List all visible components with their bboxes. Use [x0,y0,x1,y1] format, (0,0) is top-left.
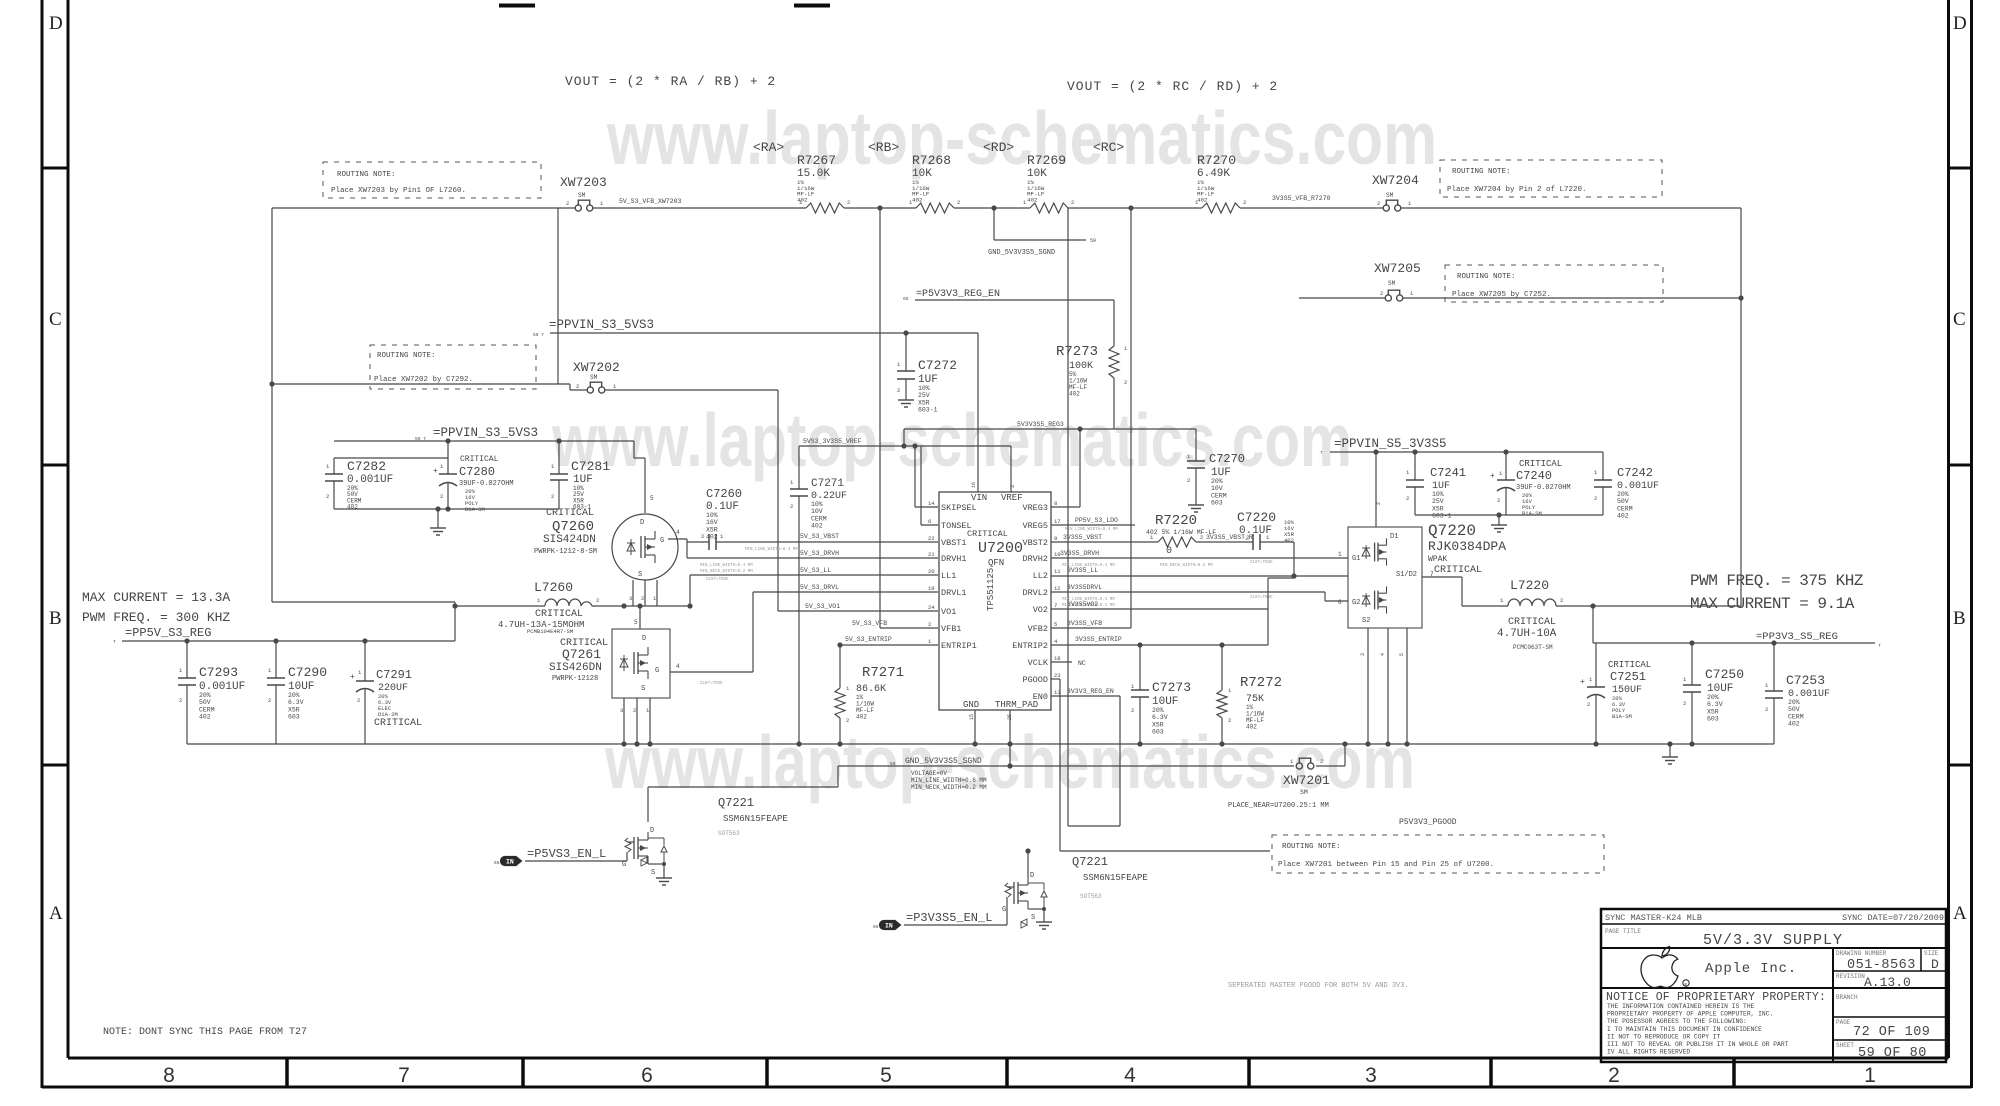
svg-text:C7250: C7250 [1705,667,1744,682]
junction switch at Q7261 drain [637,603,642,608]
junction gnd rail C7251 [1593,741,1598,746]
svg-text:GND_5V3V3S5_SGND: GND_5V3V3S5_SGND [988,249,1055,257]
svg-text:C7282: C7282 [347,459,386,474]
svg-text:20%: 20% [1152,707,1164,714]
wire SGND line [838,744,1345,766]
svg-text:2: 2 [1131,707,1134,714]
svg-text:G: G [660,537,664,545]
svg-text:PWRPK-12128: PWRPK-12128 [552,675,598,683]
wire VIN drop [977,333,979,492]
svg-text:C7290: C7290 [288,665,327,680]
wire Q7220 S1D2 to L7220 [1422,577,1462,606]
svg-text:D: D [650,827,654,835]
junction gnd rail C7271 [796,741,801,746]
svg-text:2: 2 [551,493,554,500]
svg-text:MIN_NECK_WIDTH=0.2 MM: MIN_NECK_WIDTH=0.2 MM [1160,564,1213,568]
svg-text:2: 2 [596,597,599,604]
svg-text:10%: 10% [918,385,930,392]
junction PPVIN at C7272 [903,330,908,335]
capacitor C7293 [178,641,245,744]
svg-text:II NOT TO REPRODUCE OR COPY IT: II NOT TO REPRODUCE OR COPY IT [1607,1033,1721,1040]
svg-text:CRITICAL: CRITICAL [1608,660,1651,670]
svg-text:4: 4 [1124,1064,1136,1087]
svg-text:S: S [651,869,655,877]
svg-text:<RC>: <RC> [1093,140,1124,155]
svg-text:2: 2 [440,493,443,500]
svg-text:4: 4 [676,663,680,670]
svg-text:CRITICAL: CRITICAL [1508,617,1556,628]
svg-text:2107=TRUE: 2107=TRUE [700,682,723,686]
junction PP5V at C7290 [273,638,278,643]
title block revision [1836,973,1911,990]
svg-text:603-1: 603-1 [918,407,938,414]
svg-text:XW7202: XW7202 [573,360,620,375]
svg-text:6.3V: 6.3V [288,699,304,706]
wire Q7221a source gnd [648,864,672,885]
svg-text:S1/D2: S1/D2 [1396,571,1417,579]
svg-text:22: 22 [928,535,935,542]
wire 3V3 output drop [1592,606,1594,643]
inductor L7220 [1497,578,1563,651]
routing note box XW7203 [323,162,541,198]
junction PPVIN S5 C7241 [1412,449,1417,454]
svg-text:B: B [49,608,62,629]
ground S5 cap bank [1491,515,1507,532]
capacitor C7253 [1765,643,1830,744]
svg-text:402: 402 [912,196,923,203]
wire ENTRIP2 [1051,644,1268,646]
svg-text:C7293: C7293 [199,665,238,680]
svg-text:65: 65 [494,860,500,866]
capacitor C7282 [325,459,393,511]
svg-text:402: 402 [1069,391,1080,398]
junction Q7221b source [1042,907,1046,911]
routing note box XW7205 [1445,265,1663,302]
svg-text:PLACE_NEAR=U7200.25:1 MM: PLACE_NEAR=U7200.25:1 MM [1228,802,1329,810]
svg-text:=PPVIN_S3_5VS3: =PPVIN_S3_5VS3 [433,426,538,440]
svg-text:XW7205: XW7205 [1374,261,1421,276]
svg-text:2: 2 [1243,199,1246,206]
svg-text:L7220: L7220 [1510,578,1549,593]
svg-text:2: 2 [847,199,850,206]
svg-text:CERM: CERM [1211,492,1227,499]
capacitor C7291 [350,641,422,744]
svg-text:REVISION: REVISION [1836,973,1865,980]
transistor Q7220 [1338,502,1506,656]
svg-text:QFN: QFN [988,558,1004,568]
svg-text:402: 402 [1027,196,1038,203]
routing note box XW7204 [1440,160,1662,197]
apple logo [1641,947,1689,988]
net label =PP3V3_S5_REG [1756,631,1881,649]
wire DRVH2 to Q7220 G1 [1051,557,1348,559]
svg-text:59: 59 [890,761,896,767]
wire switch node 3V3 [1462,605,1508,607]
routing note box XW7202 [370,345,536,389]
svg-text:<RB>: <RB> [868,140,899,155]
wire XW7202 right [605,390,778,611]
svg-text:PAGE: PAGE [1836,1019,1851,1026]
ground 3V3 output [1662,744,1678,764]
svg-text:R7270: R7270 [1197,153,1236,168]
wire Q7261 gate to DRVL1 [670,592,753,686]
svg-text:SEPERATED MASTER PGOOD FOR BOT: SEPERATED MASTER PGOOD FOR BOTH 5V AND 3… [1228,982,1409,990]
junction switch node L7260 left [452,603,457,608]
svg-text:=PPVIN_S3_5VS3: =PPVIN_S3_5VS3 [549,318,654,332]
svg-text:2: 2 [1587,701,1590,708]
svg-text:MIN_LINE_WIDTH=0.4 MM: MIN_LINE_WIDTH=0.4 MM [700,564,753,568]
wire VREG3 stub [1051,429,1080,507]
svg-text:5V_S3_VO1: 5V_S3_VO1 [805,603,840,610]
wire PPVIN to Q7260 drain [634,441,645,513]
wire EN0 [1051,696,1120,826]
wire Q7221b source gnd [1028,909,1052,929]
svg-text:CERM: CERM [1617,505,1633,512]
svg-text:39UF-0.027OHM: 39UF-0.027OHM [459,480,514,488]
svg-text:2: 2 [641,595,644,602]
wire main ground rail [187,743,1774,745]
junction gnd rail Q7261 c [647,741,652,746]
svg-text:D: D [640,519,644,527]
svg-text:39UF-0.0270HM: 39UF-0.0270HM [1516,484,1571,492]
junction ENTRIP2 C7273 [1137,642,1142,647]
svg-text:IV ALL RIGHTS RESERVED: IV ALL RIGHTS RESERVED [1607,1049,1690,1056]
title block [1601,909,1946,1062]
svg-text:VBST1: VBST1 [941,538,967,548]
svg-text:25V: 25V [918,392,930,399]
svg-text:7: 7 [398,1064,410,1087]
svg-text:2: 2 [957,199,960,206]
junction PPVIN S5 C7240 [1503,449,1508,454]
junction PP5V at C7293 [184,638,189,643]
svg-text:2: 2 [566,200,569,207]
svg-text:402: 402 [199,714,211,721]
svg-text:VBST2: VBST2 [1022,538,1048,548]
svg-text:20%: 20% [1788,699,1800,706]
IC U7200 TPS51125 [928,482,1061,720]
wire S5 cap bank bottom [1415,514,1603,516]
svg-text:5: 5 [634,619,638,626]
svg-text:VO2: VO2 [1033,605,1048,615]
capacitor C7250 [1683,643,1744,744]
net label =PPVIN_S3_5VS3 lower [415,426,538,442]
input flag =P3V3S5_EN_L [873,911,992,930]
svg-text:402: 402 [706,534,718,541]
svg-text:MIN_LINE_WIDTH=0.4 MM: MIN_LINE_WIDTH=0.4 MM [1065,528,1118,532]
svg-text:C7251: C7251 [1610,670,1646,684]
junction 3V3 rail C7253 [1771,640,1776,645]
wire DRVL1 [753,591,938,593]
svg-text:3: 3 [620,707,623,714]
svg-text:THE POSESSOR AGREES TO THE FOL: THE POSESSOR AGREES TO THE FOLLOWING: [1607,1018,1747,1025]
svg-text:CERM: CERM [199,706,215,713]
title block size [1924,950,1939,972]
svg-text:7: 7 [1878,643,1881,649]
svg-text:9: 9 [1054,535,1057,542]
junction ENTRIP R7271 [837,642,842,647]
svg-text:SHEET: SHEET [1836,1042,1854,1049]
svg-text:10%: 10% [1432,491,1444,498]
svg-text:MAX CURRENT = 9.1A: MAX CURRENT = 9.1A [1690,595,1855,613]
svg-text:=P5VS3_EN_L: =P5VS3_EN_L [527,847,606,861]
wire XW7202 left [272,384,587,390]
svg-text:20%: 20% [1617,491,1629,498]
svg-text:3V3S5VO2: 3V3S5VO2 [1067,601,1098,608]
svg-text:X5R: X5R [918,399,930,406]
junction VREF tap A [901,443,906,448]
svg-text:C7281: C7281 [571,459,610,474]
svg-text:Place XW7204 by Pin 2 of L7220: Place XW7204 by Pin 2 of L7220. [1447,186,1587,194]
svg-text:IN: IN [885,923,893,930]
wire left loop lower [272,384,455,602]
svg-text:SM: SM [1388,280,1396,287]
junction 3V3 output sense [1590,603,1595,608]
svg-text:5V3V3S5_REG3: 5V3V3S5_REG3 [1017,421,1064,428]
svg-text:25V: 25V [1432,498,1444,505]
svg-text:C7240: C7240 [1516,469,1552,483]
svg-text:5: 5 [880,1064,892,1087]
svg-text:C7242: C7242 [1617,466,1653,480]
svg-text:X5R: X5R [288,706,300,713]
svg-text:SOT563: SOT563 [718,830,740,837]
svg-text:2: 2 [846,717,849,724]
svg-text:Q7221: Q7221 [718,796,754,810]
junction cap bank gnd [435,506,440,511]
svg-text:5V_S3_DRVL: 5V_S3_DRVL [800,584,839,591]
svg-text:C7280: C7280 [459,465,495,479]
svg-text:D1: D1 [1390,533,1398,541]
svg-text:5V_S3_VFB: 5V_S3_VFB [852,620,887,627]
svg-text:2: 2 [1497,497,1500,504]
svg-text:NC: NC [1078,660,1086,667]
svg-text:59 OF 80: 59 OF 80 [1858,1046,1927,1061]
svg-text:www.laptop-schematics.com: www.laptop-schematics.com [606,96,1437,180]
svg-text:0: 0 [1166,546,1172,557]
wire Q7260 gate to DRVH1 [668,529,687,558]
svg-text:A: A [1953,903,1967,924]
wire ENTRIP1 [840,644,938,646]
svg-text:S: S [641,685,645,693]
svg-text:G: G [655,667,659,675]
inductor L7260 [498,580,599,635]
svg-text:2: 2 [268,697,271,704]
junction gnd rail R7272 [1219,741,1224,746]
svg-text:3: 3 [1010,485,1016,488]
title block page num [1836,1019,1930,1040]
svg-text:5V_S3_ENTRIP: 5V_S3_ENTRIP [845,636,892,643]
svg-text:SSM6N15FEAPE: SSM6N15FEAPE [723,814,788,824]
svg-text:B: B [1953,608,1966,629]
wire =PPVIN_S3_5VS3 upper [550,332,978,334]
svg-text:2: 2 [1406,495,1409,502]
junction gnd rail U7200 gnd [972,741,977,746]
junction PGOOD Q7221 [1025,848,1030,853]
svg-text:S: S [638,571,642,579]
wire VCLK stub [1051,661,1072,663]
svg-text:Place XW7203 by Pin1 OF L7260.: Place XW7203 by Pin1 OF L7260. [331,187,466,195]
svg-text:402: 402 [1788,721,1800,728]
svg-text:TPS51125: TPS51125 [986,568,996,611]
svg-text:2: 2 [1187,477,1190,484]
input flag =P5VS3_EN_L [494,847,606,866]
svg-text:3V3S5DRVL: 3V3S5DRVL [1067,584,1102,591]
svg-text:VREF: VREF [1001,493,1023,503]
svg-text:PP5V_S3_LDO: PP5V_S3_LDO [1075,517,1118,524]
svg-text:402: 402 [1197,196,1208,203]
wire VREF line [799,445,1011,447]
svg-text:A.13.0: A.13.0 [1864,975,1911,990]
junction SGND to rail [1342,741,1347,746]
svg-text:R7273: R7273 [1056,344,1098,360]
svg-text:+: + [1490,472,1495,481]
svg-text:2: 2 [1608,1064,1620,1087]
svg-text:19: 19 [928,585,935,592]
svg-text:RJK0384DPA: RJK0384DPA [1428,539,1506,554]
svg-text:2: 2 [790,503,793,510]
junction PPVIN lower at C7280 [445,438,450,443]
svg-text:4: 4 [676,529,680,536]
junction LL at switch node [687,603,692,608]
wire =PP5V_S3_REG rail [122,640,455,642]
title block page title [1605,928,1843,949]
wire Q7261 source pins [620,698,650,744]
svg-text:72 OF 109: 72 OF 109 [1853,1025,1930,1040]
svg-text:=PP5V_S3_REG: =PP5V_S3_REG [125,626,211,640]
svg-text:5V_S3_VBST: 5V_S3_VBST [800,533,839,540]
routing note box XW7201 [1272,835,1604,873]
svg-text:2: 2 [576,383,579,390]
svg-text:www.laptop-schematics.com: www.laptop-schematics.com [551,398,1352,482]
svg-text:IN: IN [506,859,514,866]
wire VFB2 [1051,627,1131,629]
svg-text:CRITICAL: CRITICAL [460,455,499,464]
capacitor C7281 [550,441,610,511]
wire cap bank bottom [334,508,559,510]
wire =PP3V3_S5_REG rail [1593,642,1875,644]
svg-text:65: 65 [873,924,879,930]
svg-text:17: 17 [1054,518,1061,525]
svg-text:2: 2 [1124,379,1127,386]
svg-text:B1A-SM: B1A-SM [1612,713,1632,720]
svg-text:G1: G1 [1352,555,1360,563]
svg-text:3: 3 [1365,1064,1377,1087]
capacitor C7260 [687,487,938,550]
svg-text:59 7: 59 7 [533,332,544,338]
svg-text:XW7203: XW7203 [560,175,607,190]
svg-text:2: 2 [1380,290,1383,297]
wire U7200 pad to SGND [1009,744,1011,766]
junction C7220 LL2 [1291,573,1296,578]
svg-text:5: 5 [1399,653,1405,656]
svg-text:7: 7 [113,639,116,645]
svg-text:3V3S5_VFB_R7270: 3V3S5_VFB_R7270 [1272,195,1331,202]
svg-text:2107=TRUE: 2107=TRUE [1250,596,1273,600]
wire R7271 to gnd rail [839,718,841,744]
svg-text:3V3S5_LL: 3V3S5_LL [1067,567,1098,574]
wire SKIPSEL stub [915,446,938,507]
svg-text:C7271: C7271 [811,478,844,490]
svg-text:5V_S3_DRVH: 5V_S3_DRVH [800,550,839,557]
wire switch node 5V [455,602,690,606]
svg-text:5V/3.3V SUPPLY: 5V/3.3V SUPPLY [1703,932,1843,949]
wire VREF drop to IC [1010,446,1012,492]
svg-text:20%: 20% [1707,694,1719,701]
junction REG3 VREG3 [1077,426,1082,431]
wire 5V3V3S5_REG3 rail [904,429,1196,446]
svg-text:<RD>: <RD> [983,140,1014,155]
svg-text:EN0: EN0 [1033,692,1048,702]
svg-text:CRITICAL: CRITICAL [1519,459,1562,469]
svg-text:R7268: R7268 [912,153,951,168]
svg-text:Place XW7201 between Pin 15 an: Place XW7201 between Pin 15 and Pin 25 o… [1278,861,1494,869]
svg-text:DRVH2: DRVH2 [1022,554,1048,564]
transistor Q7260 [534,495,678,580]
junction gnd rail C7250 [1689,741,1694,746]
svg-text:6: 6 [928,518,931,525]
svg-text:SM: SM [590,374,598,381]
svg-text:603-1: 603-1 [1432,513,1452,520]
svg-text:402: 402 [1284,537,1294,544]
net label =PP5V_S3_REG [113,626,211,645]
svg-text:ROUTING NOTE:: ROUTING NOTE: [1457,273,1516,281]
svg-text:2107=TRUE: 2107=TRUE [706,578,729,582]
ground cap bank [430,509,446,535]
svg-text:5: 5 [1054,621,1057,628]
svg-text:8: 8 [163,1064,175,1087]
svg-text:6.3V: 6.3V [1152,714,1168,721]
wire VFB1 [880,627,938,629]
junction gnd rail C7273 [1137,741,1142,746]
svg-text:SYNC DATE=07/20/2009: SYNC DATE=07/20/2009 [1842,913,1944,923]
junction top rail at R7269/R7270 [1128,205,1133,210]
net label =PPVIN_S3_5VS3 upper [533,318,654,338]
svg-text:65: 65 [903,296,909,302]
svg-text:C7272: C7272 [918,358,957,373]
jumper XW7205 [1374,261,1421,301]
svg-text:SM: SM [1386,192,1394,199]
junction PPVIN lower at C7281 [556,438,561,443]
svg-text:3V3S5_DRVH: 3V3S5_DRVH [1060,550,1099,557]
wire DRVH1 [687,557,938,559]
svg-text:R7220: R7220 [1155,513,1197,529]
svg-text:10%: 10% [811,501,823,508]
svg-text:D: D [1931,957,1939,972]
junction XW7205 at right rail [1738,295,1743,300]
svg-text:Place XW7202 by C7292.: Place XW7202 by C7292. [374,376,473,384]
svg-text:VCLK: VCLK [1028,658,1049,668]
svg-text:VO1: VO1 [941,607,956,617]
svg-text:2: 2 [1377,200,1380,207]
resistor R7273 [1056,344,1128,398]
svg-text:7: 7 [1054,602,1057,609]
capacitor C7272 [897,333,957,414]
junction skipsel vref [912,443,917,448]
svg-text:BRANCH: BRANCH [1836,994,1858,1001]
capacitor C7273 [1131,645,1191,744]
svg-text:LL1: LL1 [941,571,956,581]
svg-text:+: + [350,673,355,682]
svg-text:2107=TRUE: 2107=TRUE [1250,561,1273,565]
svg-text:WPAK: WPAK [1428,555,1447,564]
svg-text:C: C [49,309,62,330]
svg-text:3V3S5_ENTRIP: 3V3S5_ENTRIP [1075,636,1122,643]
svg-text:2: 2 [701,533,704,540]
wire =PPVIN_S5_3V3S5 [1330,451,1603,453]
svg-text:DRVL2: DRVL2 [1022,588,1048,598]
wire vertical EN loop left [1067,208,1069,826]
junction gnd rail Q7220 a [1365,741,1370,746]
svg-text:<RA>: <RA> [753,140,784,155]
